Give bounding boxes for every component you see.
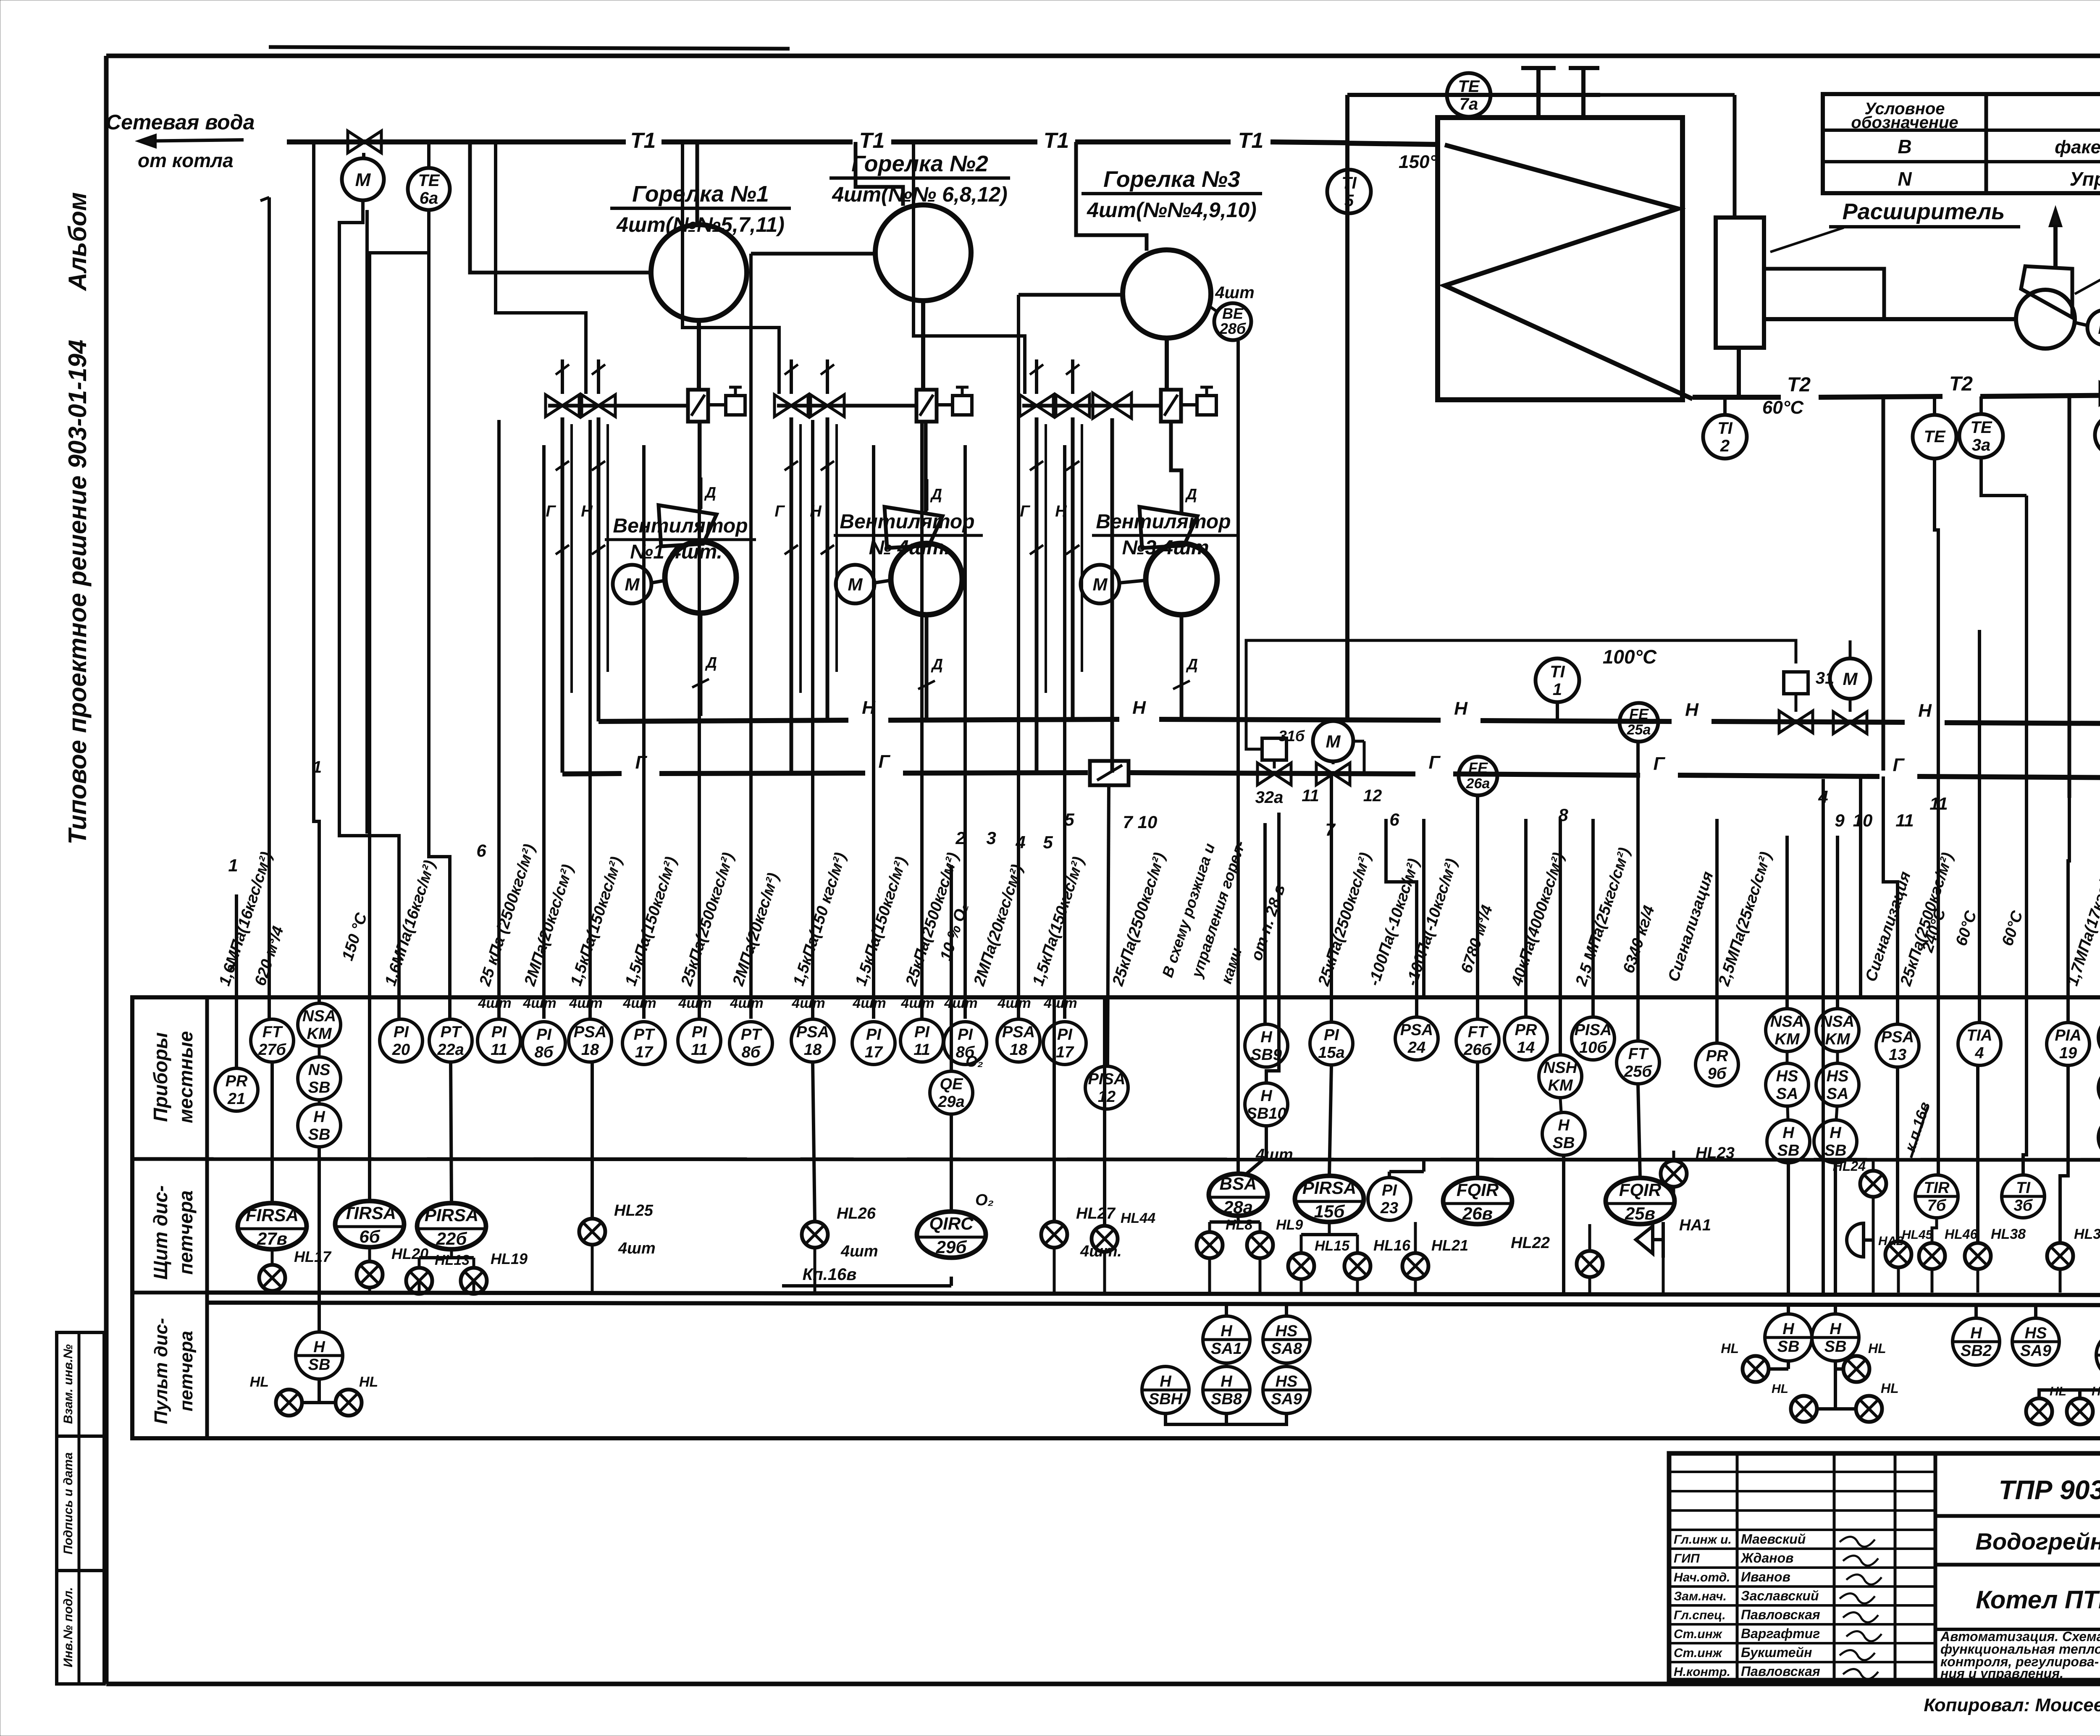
instrument PISA 10б — [1572, 1017, 1614, 1060]
lamp HL23 — [1661, 1144, 1735, 1197]
burner1 oil riser — [581, 417, 605, 721]
svg-text:12: 12 — [1363, 787, 1382, 805]
instrument TE 7a — [1447, 73, 1491, 117]
wire TE3a down — [1981, 458, 2026, 496]
boiler heating zigzag — [1445, 145, 1693, 399]
fan1 motor — [613, 565, 666, 603]
instrument PIA 19 — [2047, 1023, 2089, 1065]
wire left feed burner3 — [1018, 293, 1123, 297]
instrument PT 17 — [622, 1022, 665, 1065]
lamp HL21 — [1402, 1222, 1468, 1293]
label кп16в slanted — [1901, 1100, 1934, 1158]
burner3 main valve — [1093, 393, 1131, 418]
valve top stubs — [556, 359, 1079, 394]
svg-text:SA1: SA1 — [1211, 1340, 1242, 1358]
wire left feed burner1 — [470, 142, 652, 273]
burner1 oil valve — [582, 395, 615, 417]
svg-text:14: 14 — [1517, 1039, 1535, 1057]
lamp HL16 — [1344, 1237, 1411, 1293]
board QIRC 29б — [917, 1115, 994, 1258]
burner3 gas valve — [1020, 395, 1053, 417]
svg-text:Щит дис-: Щит дис- — [150, 1185, 171, 1280]
svg-text:Г: Г — [1020, 503, 1030, 520]
svg-text:9б: 9б — [1708, 1065, 1727, 1083]
svg-text:HL17: HL17 — [294, 1248, 332, 1265]
instrument TI 5 — [1327, 170, 1371, 213]
svg-text:Вентилятор: Вентилятор — [613, 515, 748, 537]
burner gauge columns 4шт — [499, 254, 1065, 1019]
stack links NSA right1 — [1787, 1052, 1788, 1293]
drop TI5 line — [1345, 95, 1349, 720]
svg-text:4шт: 4шт — [840, 1243, 878, 1260]
wire TI3б column — [2025, 496, 2028, 995]
svg-text:Ст.инж: Ст.инж — [1674, 1646, 1723, 1660]
svg-text:HL26: HL26 — [837, 1205, 876, 1222]
lamp HL20 — [357, 1245, 428, 1293]
instrument NSA KM — [298, 1003, 341, 1046]
burner3 oil valve — [1056, 395, 1089, 417]
instrument FE 25а — [1620, 703, 1658, 742]
svg-text:PSA: PSA — [1002, 1023, 1035, 1041]
legend row B — [1898, 136, 2100, 157]
instrument PR 9б — [1696, 1043, 1738, 1086]
svg-text:PT: PT — [441, 1023, 462, 1041]
instrument FE 26а — [1459, 757, 1497, 795]
legend row N — [1898, 168, 2100, 190]
instrument FT 25б — [1617, 1041, 1659, 1084]
band row divider 1 — [132, 1159, 2100, 1160]
bracket PIRSA lamps — [419, 1249, 474, 1258]
svg-text:Н: Н — [1918, 700, 1932, 721]
pipe T2 — [1693, 371, 2100, 399]
svg-text:Н: Н — [1454, 698, 1468, 719]
svg-text:обозначение: обозначение — [1851, 113, 1958, 132]
svg-text:Букштейн: Букштейн — [1741, 1645, 1812, 1660]
burner Горелка №2 — [829, 151, 1010, 301]
svg-text:SB: SB — [1824, 1142, 1847, 1159]
svg-text:Заславский: Заславский — [1741, 1588, 1819, 1603]
wire SB10 column — [1266, 813, 1279, 1083]
instrument PSA 18 — [791, 1019, 834, 1062]
T2 drop line x4927 — [2068, 397, 2071, 798]
instrument PI 11 — [678, 1019, 721, 1062]
svg-text:Гл.инж и.: Гл.инж и. — [1674, 1533, 1732, 1547]
instrument TE 6a — [408, 142, 450, 210]
burner2 gas riser — [774, 417, 798, 773]
console H SB r2 — [1812, 1305, 1859, 1361]
svg-text:TIR: TIR — [1924, 1179, 1950, 1197]
instrument H SB10 — [1245, 1083, 1288, 1126]
instrument PI 15а — [1310, 1022, 1353, 1065]
wire QE29а column — [950, 865, 953, 1070]
svg-text:HS: HS — [1276, 1373, 1298, 1390]
svg-text:FT: FT — [1468, 1023, 1488, 1041]
chimney tubes — [1521, 66, 1599, 119]
svg-text:Водогрейные котлы типа ПТВМ.: Водогрейные котлы типа ПТВМ. — [1975, 1528, 2100, 1555]
console H SB2 — [1953, 1305, 2000, 1365]
svg-text:20: 20 — [392, 1041, 410, 1059]
title block names — [1674, 1531, 1882, 1679]
svg-text:ВЕ: ВЕ — [1222, 305, 1244, 322]
control loop line — [1246, 640, 1850, 749]
console H SB left — [296, 1332, 343, 1398]
title block row lines — [1669, 1472, 1935, 1662]
svg-text:H: H — [1160, 1373, 1172, 1390]
burner1 gas riser — [546, 417, 569, 773]
console H SBН — [1142, 1366, 1189, 1413]
svg-text:32а: 32а — [1255, 788, 1284, 807]
svg-text:SB: SB — [308, 1126, 331, 1143]
wire SB9 column — [1263, 823, 1267, 1023]
svg-text:местные: местные — [175, 1031, 197, 1123]
svg-text:Н: Н — [1685, 700, 1699, 720]
svg-text:8б: 8б — [742, 1044, 761, 1061]
burner Горелка №3 — [1081, 167, 1262, 338]
svg-text:PI: PI — [1324, 1026, 1339, 1044]
svg-text:FT: FT — [1628, 1045, 1649, 1063]
svg-text:ТЕ: ТЕ — [1924, 427, 1945, 446]
svg-text:НА1: НА1 — [1679, 1217, 1711, 1234]
instrument PI 11 — [900, 1019, 943, 1062]
svg-text:25в: 25в — [1625, 1204, 1655, 1223]
svg-text:7: 7 — [1123, 812, 1133, 832]
svg-text:HL24: HL24 — [1833, 1159, 1866, 1174]
svg-text:Н: Н — [1132, 698, 1146, 718]
svg-text:Горелка №1: Горелка №1 — [632, 181, 769, 207]
svg-text:PIRSA: PIRSA — [1302, 1178, 1356, 1198]
svg-text:FQIR: FQIR — [1457, 1180, 1499, 1200]
svg-text:Вентилятор: Вентилятор — [1096, 511, 1231, 533]
svg-text:№ 4шт.: № 4шт. — [869, 537, 950, 559]
wire NSAKM2 column — [1836, 836, 1839, 1007]
svg-text:М: М — [1326, 732, 1341, 751]
svg-text:SB: SB — [1777, 1338, 1800, 1356]
svg-text:17: 17 — [1056, 1044, 1074, 1061]
svg-text:HL: HL — [1868, 1341, 1886, 1356]
svg-text:SB: SB — [1553, 1134, 1575, 1152]
svg-text:Павловская: Павловская — [1741, 1664, 1820, 1679]
svg-text:18: 18 — [1010, 1041, 1028, 1059]
svg-text:HL44: HL44 — [1121, 1210, 1155, 1226]
svg-text:Г: Г — [546, 503, 556, 520]
legend table frame — [1823, 94, 2100, 193]
svg-text:6: 6 — [476, 841, 486, 860]
wire staircase b2 — [682, 142, 779, 394]
title description — [1940, 1629, 2100, 1681]
svg-text:HS: HS — [1776, 1067, 1798, 1085]
svg-text:NSA: NSA — [1770, 1013, 1804, 1031]
вентилятор fan circle — [2016, 290, 2075, 349]
board FQIR 25в — [1606, 1085, 1675, 1224]
svg-text:PI: PI — [692, 1023, 707, 1041]
wire signal 4430 — [1859, 778, 1862, 995]
svg-text:HL23: HL23 — [1696, 1144, 1735, 1162]
svg-text:PSA: PSA — [1400, 1021, 1433, 1039]
left stamp box Подпись и дата — [57, 1436, 104, 1571]
wire NSH column — [1559, 819, 1562, 1054]
svg-text:В: В — [1898, 136, 1911, 157]
instrument H SB — [1814, 1120, 1857, 1163]
svg-text:Сетевая вода: Сетевая вода — [106, 110, 255, 134]
svg-text:21: 21 — [227, 1090, 245, 1108]
lamp HL25 — [579, 1063, 656, 1293]
svg-text:PSA: PSA — [796, 1023, 829, 1041]
svg-text:1: 1 — [228, 855, 238, 875]
instrument TE 3a — [1959, 396, 2003, 458]
svg-text:HL: HL — [1881, 1381, 1899, 1396]
lamp HL38 — [1965, 1066, 2026, 1293]
svg-text:PR: PR — [1706, 1047, 1728, 1065]
svg-text:H: H — [313, 1108, 325, 1126]
svg-text:TI: TI — [2016, 1179, 2031, 1197]
instrument PI 17 — [1043, 1022, 1086, 1065]
svg-text:HS: HS — [2025, 1324, 2047, 1342]
wire burner3 stem to T1 — [1076, 142, 1147, 251]
fan 1 Вентилятор — [659, 477, 736, 716]
board PIRSA 15б — [1295, 1065, 1364, 1222]
svg-text:HL22: HL22 — [1511, 1234, 1550, 1252]
svg-text:4шт(№№5,7,11): 4шт(№№5,7,11) — [616, 213, 785, 236]
lamp HL27 — [1041, 999, 1122, 1293]
svg-text:Павловская: Павловская — [1741, 1607, 1820, 1622]
svg-text:SBН: SBН — [1149, 1390, 1183, 1408]
burner2 flame arrestor — [916, 390, 937, 422]
wire burner1 stem to T1 — [696, 142, 699, 226]
svg-text:Типовое проектное решение 9: Типовое проектное решение 903-01-194 — [63, 340, 92, 844]
svg-text:Копировал: Моисеева: Копировал: Моисеева — [1924, 1695, 2100, 1715]
svg-text:26в: 26в — [1462, 1204, 1493, 1223]
svg-text:H: H — [1830, 1124, 1842, 1142]
band row label Приборы местные — [150, 1031, 197, 1123]
svg-text:М: М — [1843, 669, 1858, 689]
svg-text:5: 5 — [1344, 191, 1354, 210]
console HS SA8 — [1263, 1305, 1310, 1363]
svg-text:17: 17 — [865, 1044, 883, 1061]
svg-text:SB: SB — [1777, 1142, 1800, 1159]
instrument PI 20 — [380, 1019, 423, 1062]
svg-text:Вентилятор: Вентилятор — [840, 511, 974, 533]
burner2 manifold — [777, 404, 916, 408]
instrument PISA 12 — [1085, 1066, 1128, 1109]
svg-text:ТI: ТI — [1550, 663, 1565, 681]
instrument H SB — [1542, 1112, 1585, 1155]
svg-text:Г: Г — [1653, 753, 1665, 774]
board PIRSA 22б — [417, 1063, 486, 1249]
svg-text:SA9: SA9 — [1271, 1390, 1302, 1408]
motor M of T1 valve — [342, 153, 384, 200]
expander down pipe — [1737, 348, 1741, 397]
line chimney to expander — [1600, 95, 1735, 218]
instrument TIR 7б — [1915, 1175, 1958, 1218]
svg-text:от котла: от котла — [138, 149, 234, 171]
wire PISA12 column — [1108, 785, 1109, 1065]
svg-text:SB9: SB9 — [1251, 1046, 1282, 1064]
svg-text:HL: HL — [359, 1374, 378, 1390]
lamp HL44 — [1092, 999, 1155, 1293]
svg-text:HS: HS — [1276, 1322, 1298, 1340]
svg-text:QIRC: QIRC — [929, 1214, 974, 1234]
svg-text:PI: PI — [394, 1023, 409, 1041]
svg-text:SA8: SA8 — [1271, 1340, 1302, 1358]
fan2 motor — [836, 565, 890, 603]
horn HA2 — [1847, 1223, 1903, 1293]
svg-text:Расширитель: Расширитель — [1843, 199, 2005, 224]
console HS SA9 r — [2012, 1305, 2059, 1365]
svg-text:М: М — [2098, 319, 2100, 338]
wire signal column 4341 — [1822, 995, 1825, 1293]
left margin text Альбом — [63, 192, 92, 291]
wire PSA24 column — [1386, 819, 1417, 1016]
burner1 flame arrestor — [688, 390, 708, 422]
svg-text:М: М — [1093, 574, 1108, 594]
lamp HL45 — [1885, 1067, 1933, 1293]
burner1 igniter box — [708, 387, 745, 415]
svg-text:PI: PI — [958, 1026, 973, 1044]
svg-text:Пульт дис-: Пульт дис- — [151, 1318, 171, 1424]
wire T1 drop to PR21 — [230, 894, 236, 1067]
line number tags — [228, 787, 2100, 875]
burner2 gas valve — [774, 395, 808, 417]
svg-text:SB: SB — [1824, 1338, 1847, 1356]
svg-text:PR: PR — [226, 1073, 248, 1090]
horn HA1 — [1636, 1217, 1711, 1293]
svg-text:HL: HL — [1772, 1382, 1788, 1396]
svg-text:Т1: Т1 — [630, 128, 656, 153]
svg-text:Г: Г — [635, 752, 647, 773]
svg-text:N: N — [1898, 168, 1912, 190]
instrument HS SA — [1766, 1063, 1809, 1106]
svg-text:H: H — [1221, 1322, 1233, 1340]
svg-text:петчера: петчера — [175, 1191, 197, 1275]
svg-text:петчера: петчера — [176, 1331, 197, 1411]
svg-text:HL37: HL37 — [2074, 1226, 2100, 1242]
svg-text:Иванов: Иванов — [1741, 1569, 1790, 1584]
wire PI23 upper column — [1422, 819, 1425, 995]
burner2 stem — [923, 301, 926, 513]
svg-text:PI: PI — [1382, 1182, 1397, 1199]
svg-text:PI: PI — [1057, 1026, 1073, 1044]
svg-text:NSA: NSA — [1821, 1013, 1854, 1031]
svg-text:PSA: PSA — [1881, 1028, 1914, 1046]
svg-text:Г: Г — [774, 503, 785, 520]
svg-text:11: 11 — [1895, 810, 1914, 830]
svg-text:Н.контр.: Н.контр. — [1674, 1665, 1730, 1679]
instrument H SB — [2098, 1116, 2100, 1159]
svg-text:PI: PI — [914, 1023, 930, 1041]
fan3 motor — [1081, 565, 1145, 603]
svg-text:О₂: О₂ — [975, 1191, 994, 1209]
instrument PI 23 — [1368, 1159, 1424, 1220]
title subject — [1935, 1528, 2100, 1565]
svg-text:H: H — [1782, 1320, 1795, 1338]
wire TE down — [1935, 459, 1938, 1176]
svg-text:6а: 6а — [420, 189, 438, 207]
fan 2 Вентилятор — [885, 479, 962, 718]
console H SB8 — [1203, 1363, 1250, 1413]
burner3 oil riser — [1055, 417, 1079, 721]
svg-text:BSA: BSA — [1220, 1174, 1257, 1193]
instrument PT 8б — [730, 1022, 772, 1065]
svg-text:М: М — [625, 574, 640, 594]
svg-text:28а: 28а — [1223, 1197, 1253, 1217]
svg-text:Д: Д — [1185, 485, 1197, 503]
console HS SA9 — [1263, 1363, 1310, 1413]
svg-text:PT: PT — [634, 1026, 655, 1044]
svg-text:PSA: PSA — [574, 1023, 606, 1041]
fan exhaust arrow — [2050, 209, 2061, 269]
label от п.28в — [1248, 882, 1289, 962]
burner3 manifold — [1022, 404, 1161, 408]
title boiler name — [1935, 1586, 2100, 1629]
svg-text:18: 18 — [804, 1041, 822, 1059]
svg-text:12: 12 — [1098, 1088, 1116, 1106]
svg-text:7б: 7б — [1927, 1197, 1947, 1214]
instrument PR 21 — [215, 1068, 258, 1111]
instrument HS SA — [2098, 1067, 2100, 1109]
svg-text:PI: PI — [491, 1023, 507, 1041]
label 100C — [1603, 646, 1657, 668]
svg-text:TIRSA: TIRSA — [343, 1203, 396, 1223]
svg-text:Приборы: Приборы — [150, 1032, 171, 1122]
svg-text:Жданов: Жданов — [1740, 1550, 1793, 1566]
line to TE7a — [1347, 93, 1600, 97]
svg-text:17: 17 — [635, 1044, 654, 1061]
svg-text:NS: NS — [308, 1061, 331, 1079]
wire staircase b3 — [913, 142, 1025, 394]
svg-text:Т1: Т1 — [859, 128, 885, 153]
svg-text:4шт: 4шт — [1255, 1146, 1293, 1164]
instrument FT 26б — [1456, 1019, 1499, 1062]
pipe Мазут — [598, 698, 2100, 731]
burner3 flame arrestor — [1161, 390, 1181, 422]
svg-text:Ст.инж: Ст.инж — [1674, 1627, 1723, 1641]
svg-text:11: 11 — [1302, 787, 1319, 805]
fan motor M — [2075, 310, 2100, 345]
gas filter box — [1090, 761, 1129, 785]
svg-text:PIRSA: PIRSA — [425, 1205, 478, 1225]
svg-text:11: 11 — [691, 1041, 707, 1059]
band bus double line — [132, 1293, 2100, 1305]
instrument PI 17 — [852, 1022, 895, 1065]
svg-text:Альбом: Альбом — [63, 192, 92, 291]
svg-text:HL25: HL25 — [614, 1202, 654, 1219]
svg-text:22а: 22а — [437, 1041, 464, 1059]
svg-text:Д: Д — [931, 656, 943, 673]
svg-text:ТЕ: ТЕ — [1970, 418, 1992, 437]
svg-text:8б: 8б — [535, 1044, 554, 1061]
instrument PSA 18 — [997, 1019, 1040, 1062]
wire PR9б column — [1715, 819, 1719, 1042]
console H SB r1 — [1765, 1305, 1812, 1361]
instrument QE 29а — [930, 1071, 973, 1114]
svg-text:11: 11 — [913, 1041, 930, 1059]
instrument TI 3б — [2002, 995, 2045, 1218]
svg-text:H: H — [1260, 1087, 1273, 1105]
svg-text:H: H — [313, 1338, 325, 1356]
svg-text:H: H — [1558, 1117, 1570, 1134]
svg-text:31б: 31б — [1278, 727, 1305, 745]
svg-text:ТЕ: ТЕ — [418, 171, 440, 190]
band frame — [132, 997, 2100, 1438]
riser companions — [572, 424, 1082, 693]
wire TIR7б column — [1822, 779, 1825, 996]
svg-text:PT: PT — [741, 1026, 762, 1044]
svg-text:ТI: ТI — [1341, 174, 1357, 192]
wire PR14 column — [1524, 819, 1528, 1016]
band row label Щит диспетчера — [150, 1185, 197, 1280]
svg-text:HL: HL — [250, 1374, 269, 1390]
instrument TI 2 — [1703, 397, 1747, 459]
